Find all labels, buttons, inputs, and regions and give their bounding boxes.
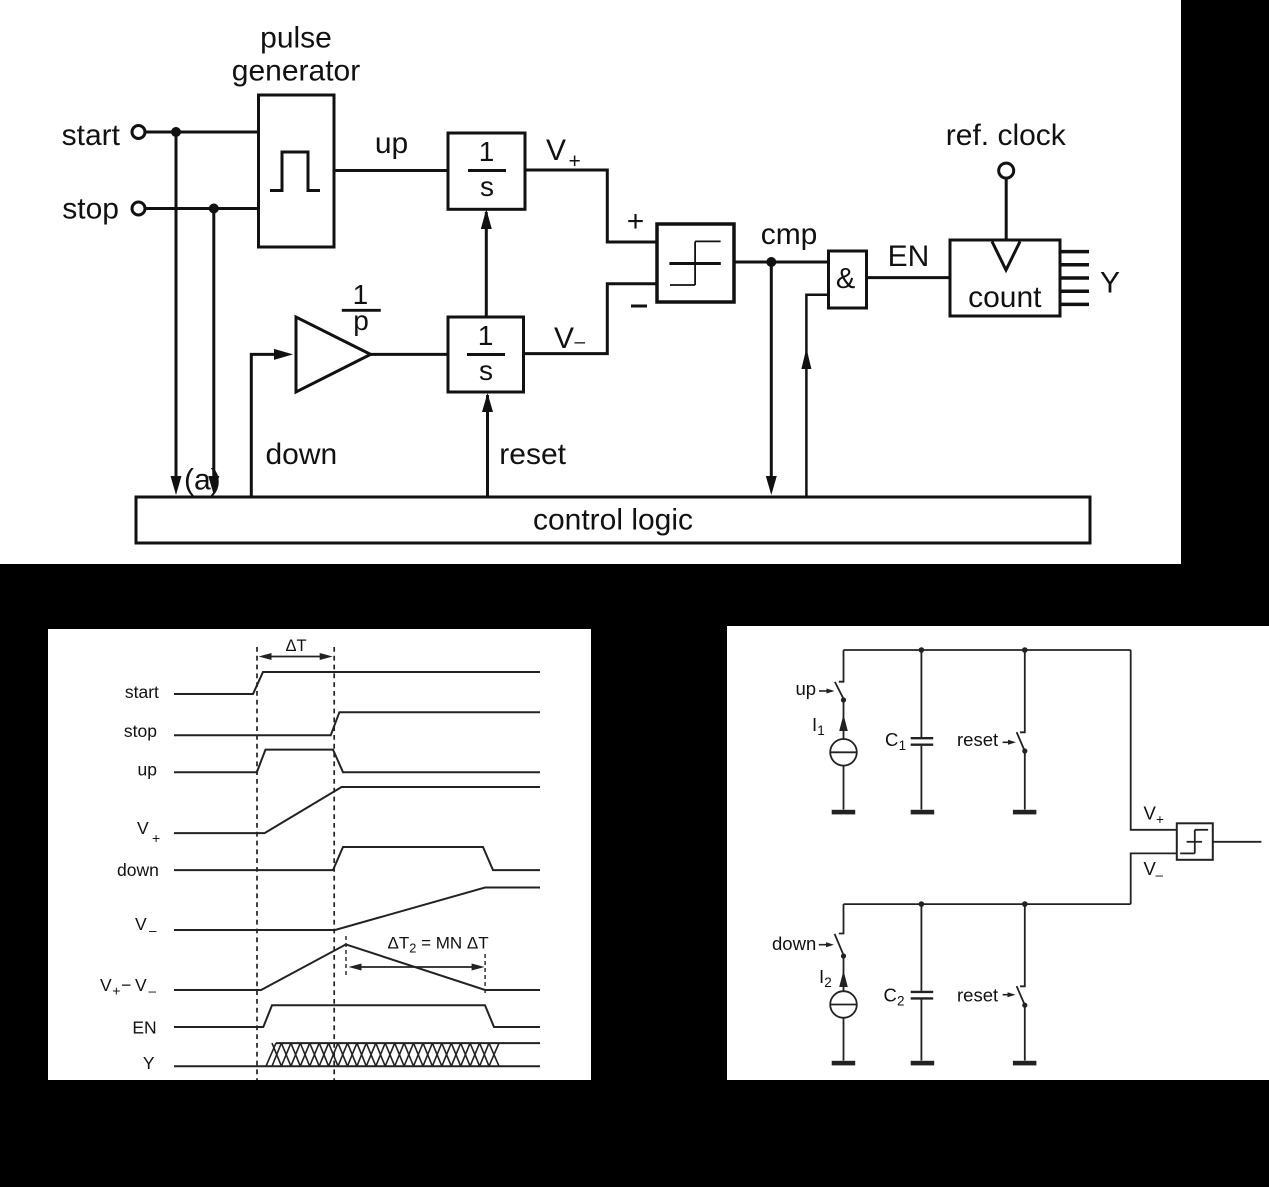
svg-text:–: – bbox=[149, 923, 157, 938]
switch down blade bbox=[835, 934, 844, 954]
label arrow reset upper bbox=[1003, 741, 1010, 743]
reset switch blade (lower) bbox=[1017, 986, 1025, 1004]
ground C2 bbox=[911, 1061, 935, 1066]
waveform EN bbox=[174, 1005, 540, 1027]
comparator hysteresis symbol bbox=[669, 262, 720, 265]
svg-text:V: V bbox=[135, 975, 147, 995]
svg-text:ΔT: ΔT bbox=[285, 637, 306, 655]
ground C1 bbox=[911, 810, 935, 815]
wire reset switch to ground (upper) bbox=[1024, 751, 1026, 810]
svg-text:+: + bbox=[569, 150, 581, 173]
waveform V- bbox=[174, 888, 540, 931]
svg-text:cmp: cmp bbox=[761, 218, 818, 251]
svg-text:control logic: control logic bbox=[533, 504, 693, 537]
wire start down to control logic bbox=[175, 132, 178, 478]
wire V- : integrator 2 to comparator - input bbox=[524, 284, 658, 354]
node up switch contact bbox=[841, 697, 846, 702]
node down switch contact bbox=[841, 953, 846, 958]
PANEL 1 : block diagram bbox=[0, 0, 1181, 564]
delta-T2 dashed tick left bbox=[345, 936, 347, 978]
svg-text:Y: Y bbox=[143, 1053, 155, 1073]
waveform V+ minus V- bbox=[174, 944, 540, 990]
PANEL 3 : switched current-source circuit bbox=[727, 626, 1269, 1080]
comparator output wire bbox=[1213, 841, 1262, 843]
svg-text:2: 2 bbox=[824, 975, 832, 990]
control logic bar bbox=[136, 497, 1090, 543]
node rail-C1 bbox=[919, 647, 925, 653]
output bus Y lines bbox=[1060, 250, 1089, 254]
waveform Y top rail bbox=[276, 1042, 540, 1044]
dashed cursor line 1 bbox=[256, 647, 258, 1081]
svg-text:&: & bbox=[836, 263, 855, 295]
svg-text:2: 2 bbox=[897, 993, 905, 1008]
svg-text:1: 1 bbox=[817, 723, 825, 738]
wire I1 to ground bbox=[843, 766, 845, 810]
svg-text:reset: reset bbox=[957, 985, 998, 1006]
capacitor C1 plates bbox=[911, 738, 934, 745]
wire up: pulse generator to integrator 1 bbox=[334, 169, 448, 172]
svg-text:V: V bbox=[137, 818, 149, 838]
waveform up bbox=[174, 750, 540, 773]
svg-text:+: + bbox=[627, 205, 645, 238]
wire rail to reset switch (upper) bbox=[1020, 650, 1025, 732]
Y bus closing transition X bbox=[489, 1043, 499, 1066]
waveform Y baseline bbox=[174, 1065, 540, 1067]
svg-text:V: V bbox=[1144, 803, 1157, 824]
svg-text:–: – bbox=[149, 984, 157, 999]
ref. clock terminal bbox=[999, 163, 1014, 178]
wire ref. clock to counter bbox=[1005, 178, 1008, 240]
bottom supply rail bbox=[844, 903, 1131, 905]
AND gate box bbox=[829, 251, 867, 308]
svg-text:−: − bbox=[121, 975, 131, 995]
svg-text:up: up bbox=[375, 127, 408, 160]
comparator hysteresis symbol (small) bbox=[1187, 841, 1203, 843]
svg-text:ΔT2 = MN ΔT: ΔT2 = MN ΔT bbox=[388, 934, 489, 956]
stop input terminal bbox=[132, 202, 145, 215]
svg-text:ref. clock: ref. clock bbox=[946, 119, 1067, 152]
wire V+ : integrator 1 to comparator + input bbox=[525, 170, 657, 242]
label arrow up bbox=[819, 690, 829, 692]
svg-text:–: – bbox=[575, 332, 586, 353]
node reset contact (upper) bbox=[1022, 748, 1027, 753]
wire stop down to control logic bbox=[212, 209, 215, 479]
wire rail to reset switch (lower) bbox=[1020, 904, 1025, 986]
integrator 1 box (1/s) bbox=[448, 133, 525, 209]
wire cmp down to control logic bbox=[770, 262, 773, 478]
wire reset: control logic to integrator 2 (arrow up) bbox=[486, 395, 489, 497]
waveform down bbox=[174, 847, 540, 870]
wire amplifier output to integrator 2 bbox=[371, 353, 448, 356]
PANEL 2 : timing diagram bbox=[48, 629, 591, 1080]
Y bus hatch diagonals / bbox=[272, 1043, 489, 1066]
integrator 2 box (1/s) bbox=[448, 317, 524, 392]
svg-text:up: up bbox=[796, 678, 817, 699]
svg-text:(a): (a) bbox=[184, 464, 221, 497]
svg-text:count: count bbox=[968, 281, 1042, 314]
counter box (count) bbox=[950, 240, 1060, 316]
delta-T dimension arrow bbox=[262, 656, 329, 658]
waveform V+ bbox=[174, 787, 540, 833]
svg-text:down: down bbox=[772, 933, 816, 954]
svg-text:pulse: pulse bbox=[260, 22, 332, 55]
delta-T2 dimension arrow bbox=[352, 966, 480, 968]
pulse generator box bbox=[259, 95, 335, 247]
svg-text:p: p bbox=[353, 305, 369, 336]
svg-text:Y: Y bbox=[1100, 267, 1120, 300]
svg-text:+: + bbox=[152, 830, 160, 846]
wire rail to up switch bbox=[839, 650, 844, 682]
wire switch to current source I2 bbox=[843, 956, 845, 991]
svg-text:reset: reset bbox=[499, 438, 566, 471]
amplifier 1/p triangle bbox=[296, 317, 371, 392]
node reset contact (lower) bbox=[1022, 1003, 1027, 1008]
switch up blade bbox=[835, 682, 843, 698]
svg-text:start: start bbox=[125, 682, 159, 702]
svg-text:V: V bbox=[554, 322, 574, 355]
top supply rail bbox=[844, 649, 1131, 651]
svg-text:V: V bbox=[135, 914, 147, 934]
wire rail to comparator V+ input bbox=[1131, 650, 1177, 830]
node cmp junction bbox=[766, 257, 776, 267]
waveform stop bbox=[174, 712, 540, 735]
wire bottom rail to comparator V- input bbox=[1131, 853, 1177, 904]
pulse symbol bbox=[270, 152, 320, 191]
svg-text:down: down bbox=[266, 438, 338, 471]
ground reset (upper) bbox=[1013, 810, 1037, 815]
current source I1 circle bbox=[830, 739, 857, 766]
svg-text:C: C bbox=[885, 729, 898, 750]
wire between integrators (arrow up) bbox=[485, 212, 488, 317]
clock input triangle bbox=[992, 242, 1020, 271]
node stop junction bbox=[209, 204, 219, 214]
ground I2 bbox=[832, 1061, 856, 1066]
wire C2 to ground bbox=[920, 1000, 922, 1061]
svg-text:reset: reset bbox=[957, 729, 998, 750]
svg-text:down: down bbox=[117, 860, 159, 880]
wire rail to capacitor C2 bbox=[920, 904, 922, 991]
svg-text:1: 1 bbox=[479, 136, 495, 167]
svg-text:s: s bbox=[480, 171, 494, 202]
wire reset switch to ground (lower) bbox=[1024, 1006, 1026, 1061]
dashed cursor line 2 bbox=[333, 647, 335, 1081]
node rail-C2 bbox=[919, 901, 925, 907]
label arrow down bbox=[819, 944, 828, 946]
wire I2 to ground bbox=[843, 1018, 845, 1061]
node rail-reset2 bbox=[1022, 901, 1028, 907]
minus label near comparator input bbox=[631, 305, 647, 308]
reset switch blade (upper) bbox=[1017, 732, 1025, 750]
current direction arrow I2 bbox=[839, 971, 848, 988]
Y bus opening slant bbox=[266, 1043, 276, 1066]
svg-text:up: up bbox=[138, 760, 157, 780]
svg-text:V: V bbox=[100, 975, 112, 995]
comparator box U1 bbox=[657, 224, 734, 302]
svg-text:–: – bbox=[1156, 868, 1164, 883]
svg-text:EN: EN bbox=[132, 1018, 156, 1038]
svg-text:stop: stop bbox=[124, 721, 157, 741]
ground reset (lower) bbox=[1013, 1061, 1037, 1066]
waveform start bbox=[174, 672, 540, 694]
svg-text:V: V bbox=[546, 134, 566, 167]
comparator box (small) bbox=[1177, 823, 1213, 860]
svg-text:+: + bbox=[112, 983, 120, 999]
capacitor C2 plates bbox=[911, 992, 934, 999]
svg-text:start: start bbox=[62, 119, 121, 152]
wire rail to capacitor C1 bbox=[920, 650, 922, 737]
svg-text:C: C bbox=[884, 984, 897, 1005]
start input terminal bbox=[132, 126, 145, 139]
svg-text:s: s bbox=[479, 355, 493, 386]
svg-text:1: 1 bbox=[478, 320, 494, 351]
current source I2 circle bbox=[830, 991, 857, 1018]
svg-text:generator: generator bbox=[232, 55, 360, 88]
wire C1 to ground bbox=[920, 746, 922, 810]
delta-T2 dashed tick right bbox=[484, 954, 486, 995]
current direction arrow I1 bbox=[839, 715, 848, 732]
node start junction bbox=[171, 127, 181, 137]
node rail-reset bbox=[1022, 647, 1028, 653]
svg-text:stop: stop bbox=[62, 193, 119, 226]
wire stop to pulse generator bbox=[146, 207, 259, 210]
svg-text:+: + bbox=[1156, 812, 1164, 827]
wire start to pulse generator bbox=[146, 131, 259, 134]
wire EN: AND gate to counter bbox=[867, 276, 951, 279]
svg-text:EN: EN bbox=[888, 240, 930, 273]
svg-text:1: 1 bbox=[899, 738, 907, 753]
ground I1 bbox=[832, 810, 856, 815]
wire cmp: comparator to AND gate bbox=[734, 261, 829, 264]
wire control logic to AND gate second input (arrow up) bbox=[806, 295, 828, 497]
wire down: control logic to amplifier input bbox=[251, 354, 276, 497]
label arrow reset lower bbox=[1003, 994, 1010, 996]
wire switch to current source I1 bbox=[843, 700, 845, 740]
wire rail to down switch bbox=[839, 904, 844, 933]
Y bus hatch diagonals \ bbox=[272, 1043, 489, 1066]
